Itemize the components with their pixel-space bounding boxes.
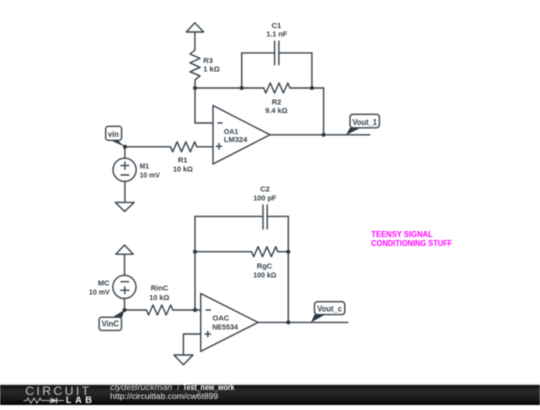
node C1 left junction xyxy=(240,86,244,90)
capacitor C1 xyxy=(275,41,279,65)
ground (below M1) xyxy=(115,202,134,211)
svg-text:10 kΩ: 10 kΩ xyxy=(173,165,193,174)
annotation TEENSY SIGNAL CONDITIONING STUFF xyxy=(371,230,452,248)
svg-text:Vout_c: Vout_c xyxy=(317,305,342,314)
ground (below OAC) xyxy=(174,355,193,365)
capacitor C2 xyxy=(263,205,267,229)
node output OAC junction xyxy=(286,320,290,324)
wire vin to R1 xyxy=(125,146,171,148)
CircuitLab logo xyxy=(24,384,93,405)
node RgC right junction xyxy=(286,250,290,254)
svg-text:vin: vin xyxy=(108,130,119,139)
footer credit text xyxy=(110,383,235,401)
node RgC left junction xyxy=(193,250,197,254)
node flag Vout_c xyxy=(311,302,345,323)
wire RinC to inverting input xyxy=(173,309,201,311)
node C1 right junction xyxy=(310,86,314,90)
svg-text:CONDITIONING STUFF: CONDITIONING STUFF xyxy=(371,239,452,248)
node flag Vout_1 xyxy=(346,114,379,135)
svg-text:100 pF: 100 pF xyxy=(253,193,277,202)
svg-text:RgC: RgC xyxy=(257,262,273,271)
wire VinC to RinC xyxy=(125,309,147,311)
node VinC junction xyxy=(123,308,127,312)
svg-text:10 mV: 10 mV xyxy=(89,287,110,296)
op-amp OA1 xyxy=(213,106,270,165)
wire C2 top right xyxy=(267,215,288,217)
wire RgC right xyxy=(278,251,288,253)
svg-text:R1: R1 xyxy=(178,156,188,165)
svg-text:MC: MC xyxy=(98,279,110,288)
wire C1 right vertical xyxy=(311,53,313,88)
voltage source M1 xyxy=(113,147,136,203)
wire C2 top left xyxy=(195,215,263,217)
svg-text:NE5534: NE5534 xyxy=(212,322,238,331)
resistor RinC xyxy=(146,305,172,315)
svg-text:TEENSY SIGNAL: TEENSY SIGNAL xyxy=(371,230,433,239)
svg-text:OAC: OAC xyxy=(213,313,230,322)
svg-text:9.4 kΩ: 9.4 kΩ xyxy=(265,106,287,115)
svg-text:LM324: LM324 xyxy=(224,135,248,144)
svg-text:C2: C2 xyxy=(260,185,270,194)
wire output OA1 xyxy=(270,134,370,136)
voltage source MC xyxy=(113,275,136,310)
op-amp OA1 input polarity signs xyxy=(216,123,223,150)
node flag vin xyxy=(106,126,125,147)
wire output vertical from R2 xyxy=(323,88,325,135)
node output OA1 junction xyxy=(322,133,326,137)
resistor R1 xyxy=(171,142,197,152)
wire RgC left xyxy=(195,251,252,253)
op-amp OAC xyxy=(201,294,258,352)
resistor RgC xyxy=(252,247,278,257)
wire output OAC xyxy=(258,321,348,323)
svg-text:100 kΩ: 100 kΩ xyxy=(253,270,276,279)
resistor R3 xyxy=(190,50,200,88)
svg-text:Vout_1: Vout_1 xyxy=(352,118,377,127)
svg-text:10 mV: 10 mV xyxy=(140,170,160,179)
wire feedback to inverting input xyxy=(195,88,213,123)
junction dots xyxy=(123,86,326,324)
svg-text:clydeBruckman: clydeBruckman xyxy=(110,383,172,392)
svg-text:M1: M1 xyxy=(140,161,149,170)
power flag V+ (top circuit) xyxy=(186,23,203,50)
resistor R2 xyxy=(264,83,290,93)
node inverting OAC junction xyxy=(193,308,197,312)
wire C1 left vertical xyxy=(241,53,243,88)
wire feedback left rail xyxy=(194,216,196,310)
power flag V+ (bottom circuit) xyxy=(116,245,133,275)
svg-text:http://circuitlab.com/cw6t899: http://circuitlab.com/cw6t899 xyxy=(110,392,218,401)
wire y=88 left segment xyxy=(195,87,264,89)
svg-text:VinC: VinC xyxy=(102,319,120,328)
svg-text:LAB: LAB xyxy=(66,395,92,405)
svg-text:1 kΩ: 1 kΩ xyxy=(203,65,219,74)
wire R1 to non-inverting input xyxy=(197,146,213,148)
svg-text:10 kΩ: 10 kΩ xyxy=(149,293,169,302)
wire C1 top left xyxy=(242,52,275,54)
node vin junction xyxy=(123,145,127,149)
svg-text:1.1 nF: 1.1 nF xyxy=(266,30,287,39)
wire feedback right rail xyxy=(287,216,289,322)
wire C1 top right xyxy=(279,52,312,54)
node R3/feedback junction xyxy=(193,86,197,90)
wire non-inverting to ground xyxy=(183,334,200,355)
node flag VinC xyxy=(99,310,124,330)
svg-text:RinC: RinC xyxy=(151,284,169,293)
footer bar xyxy=(0,384,540,405)
wire y=88 right segment xyxy=(290,87,324,89)
svg-text:Test_new_work: Test_new_work xyxy=(183,383,235,392)
op-amp OAC input polarity signs xyxy=(205,310,212,337)
